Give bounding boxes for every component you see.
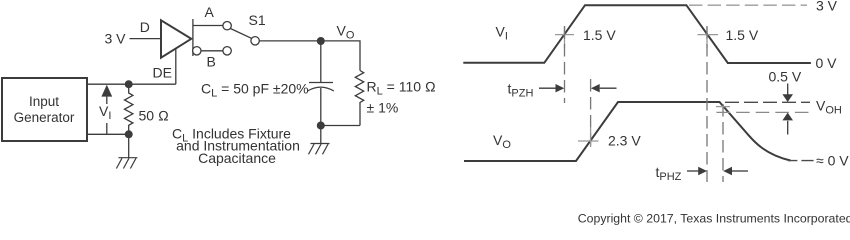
dashed vertical: VI rising 1.5V reference [564, 26, 566, 103]
svg-text:Capacitance: Capacitance [198, 150, 276, 166]
tick: vertical at 2.3V crossing [590, 127, 592, 147]
node: junction 50ohm bottom [125, 130, 133, 138]
svg-text:± 1%: ± 1% [367, 100, 399, 116]
wire: to input ground [128, 134, 130, 157]
wire: VO node down to CL [320, 41, 322, 83]
svg-text:2.3 V: 2.3 V [608, 133, 641, 149]
svg-text:0 V: 0 V [816, 55, 838, 71]
driver output bar [192, 19, 194, 56]
arrow VI [99, 85, 112, 135]
capacitor CL [308, 83, 334, 126]
node: junction 50ohm top [125, 80, 133, 88]
note: CL includes fixture [172, 126, 300, 167]
dashed horizontal: VOH-0.5V level [717, 111, 811, 113]
input generator box [2, 78, 87, 141]
tick: VOH-0.5V crossing [716, 106, 730, 108]
dashed vertical: VO 0.5V drop reference [722, 104, 724, 182]
dashed horizontal: VOH level [725, 101, 810, 103]
switch contact B stub [193, 47, 201, 55]
switch contact A [223, 22, 231, 30]
wire: VO node to RL top [321, 41, 360, 71]
svg-text:S1: S1 [249, 12, 266, 28]
annotation 0.5 V [769, 69, 802, 135]
resistor RL [355, 71, 363, 126]
svg-text:CL = 50 pF ±20%: CL = 50 pF ±20% [201, 81, 309, 100]
node VO [317, 37, 325, 45]
svg-text:A: A [205, 4, 215, 20]
tick: 2.3V crossing [578, 140, 599, 142]
svg-text:1.5 V: 1.5 V [726, 27, 759, 43]
svg-text:50 Ω: 50 Ω [139, 108, 169, 124]
svg-text:Input: Input [29, 94, 59, 109]
node: load ground junction [317, 122, 325, 130]
wire: A branch [193, 25, 223, 27]
svg-text:DE: DE [153, 65, 172, 81]
svg-text:B: B [207, 54, 216, 70]
ground (input side) [116, 158, 137, 169]
wire: DE vertical riser [175, 48, 177, 84]
svg-text:Generator: Generator [14, 110, 75, 125]
annotation tPHZ [656, 164, 749, 183]
wire: generator top output to DE net [87, 83, 176, 85]
tick: 1.5V rising crossing [555, 34, 574, 36]
annotation tPZH [508, 81, 617, 100]
resistor 50 ohm [125, 84, 133, 134]
ground (load side) [309, 144, 330, 155]
svg-text:3 V: 3 V [105, 31, 127, 47]
svg-text:0.5 V: 0.5 V [769, 69, 802, 85]
dashed horizontal: ~0V level [788, 160, 814, 162]
tick: 1.5V falling crossing [698, 34, 719, 36]
dashed horizontal: 3V level [689, 4, 807, 6]
svg-text:1.5 V: 1.5 V [583, 27, 616, 43]
waveform VI [463, 5, 811, 63]
waveform VO [464, 102, 791, 161]
svg-text:≈ 0 V: ≈ 0 V [816, 153, 849, 169]
wire: generator bottom output [87, 133, 129, 135]
switch arm S1 [230, 29, 251, 39]
switch contact B [223, 47, 231, 55]
dashed vertical: VO 2.3V reference [590, 79, 592, 146]
wire: to load ground [320, 126, 322, 144]
dashed vertical: VI falling 1.5V reference [706, 26, 708, 182]
tick: vertical at falling crossing [706, 27, 708, 49]
buffer driver U1 [161, 20, 191, 57]
wire: switch common to VO node [259, 40, 320, 42]
wire: bottom rail to ground node [321, 125, 360, 127]
svg-text:Copyright © 2017, Texas Instru: Copyright © 2017, Texas Instruments Inco… [578, 212, 850, 226]
wire: D input [130, 38, 161, 40]
svg-text:3 V: 3 V [816, 0, 838, 14]
svg-text:D: D [140, 19, 150, 35]
switch common pole [251, 37, 259, 45]
tick: vertical at rising crossing [564, 27, 566, 49]
wire: B branch [201, 50, 223, 52]
